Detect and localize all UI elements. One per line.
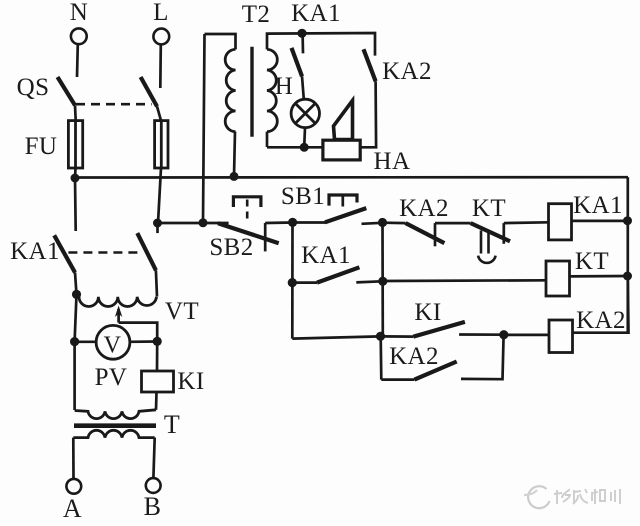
VT tap arrow (115, 306, 157, 342)
wire T2 secondary top (266, 132, 269, 147)
wire bus to KA1 left (74, 178, 77, 231)
wire KA2 coil right (573, 276, 629, 333)
terminal A (66, 479, 81, 494)
terminal B (146, 478, 161, 493)
contact KT delay symbol (478, 231, 496, 263)
wire self latch left vertical (291, 223, 294, 339)
contact KA1 self latch blade (317, 267, 359, 282)
switch QS right blade (141, 77, 157, 106)
wire KA2 branch down (360, 81, 376, 147)
svg-text:KT: KT (472, 195, 506, 222)
contact KA1 lamp blade (292, 48, 303, 76)
sounder HA body (323, 140, 360, 160)
contact KA2 row4 blade (415, 362, 457, 380)
node lamp bottom (300, 143, 309, 152)
svg-text:HA: HA (374, 148, 411, 175)
coil KA2 (549, 320, 573, 353)
wire L to QS (159, 44, 162, 88)
contact KA2 top blade (364, 49, 376, 81)
svg-text:VT: VT (165, 298, 199, 325)
wire T to terminal A (72, 438, 75, 479)
KA1 dashed link (68, 251, 138, 254)
button SB2 stem dashed (246, 200, 249, 223)
svg-text:FU: FU (25, 133, 58, 160)
svg-text:V: V (104, 332, 122, 358)
watermark logo (524, 486, 550, 508)
wire stub below node (301, 33, 304, 53)
transformer T secondary (73, 430, 154, 437)
svg-text:QS: QS (17, 74, 50, 101)
contact KT nc blade (471, 223, 510, 241)
wire self latch row right (356, 281, 383, 282)
node rail left (153, 219, 162, 228)
button SB2 blade (218, 223, 279, 243)
button SB1 blade (325, 208, 366, 222)
wire VT left down (75, 294, 77, 341)
wire KA2 row4 right (461, 335, 504, 379)
bus N horizontal (75, 176, 628, 179)
svg-text:SB2: SB2 (209, 234, 253, 261)
wire rail to KA2 contact (383, 221, 406, 224)
fuse FU right (155, 121, 168, 168)
svg-text:B: B (144, 492, 162, 521)
wire T to terminal B (153, 438, 154, 478)
transformer T2 core (250, 47, 253, 137)
wire N to QS (76, 44, 80, 77)
QS dashed link (76, 103, 152, 106)
svg-text:KI: KI (177, 368, 204, 395)
transformer T primary (75, 410, 156, 419)
node lamp branch top (297, 29, 306, 38)
lamp H (291, 99, 319, 127)
wire T2 left lead (203, 34, 205, 223)
wire KA2 branch vertical (381, 223, 384, 337)
svg-text:N: N (70, 0, 88, 26)
wire rail to SB1 (293, 221, 326, 224)
svg-text:A: A (63, 494, 82, 523)
wire KI row right (459, 333, 504, 336)
wire KT to KA1 coil (504, 221, 549, 225)
wire VT left to T primary (73, 342, 76, 410)
terminal N (71, 28, 87, 44)
wire KI row left corner (292, 336, 380, 338)
svg-text:T: T (164, 410, 180, 439)
wire FU left to bus (74, 168, 77, 178)
terminal L (153, 29, 169, 45)
coil KA1 (549, 204, 572, 240)
button SB1 stem (341, 195, 344, 207)
wire T2 secondary to lamp loop top (267, 33, 375, 56)
svg-text:KI: KI (414, 299, 441, 326)
wire QS left to FU (74, 105, 77, 120)
node coil KA1 right (623, 216, 632, 225)
node bus left (71, 174, 80, 183)
wire T2 top left (205, 34, 236, 49)
svg-text:L: L (153, 0, 169, 26)
svg-text:KT: KT (575, 248, 609, 275)
sounder HA horn cone (334, 101, 353, 140)
svg-text:KA1: KA1 (291, 0, 341, 27)
node KI row right (499, 330, 508, 339)
wire row2 to KT coil (383, 279, 546, 282)
node row2 junction (378, 277, 387, 286)
svg-text:KA2: KA2 (382, 58, 432, 85)
switch QS left blade (58, 77, 76, 105)
svg-text:KA1: KA1 (301, 242, 351, 269)
wire KT coil right (570, 275, 628, 278)
node T2 lead on rail (199, 218, 208, 227)
svg-text:KA2: KA2 (399, 195, 449, 222)
transformer T2 primary winding (225, 49, 235, 131)
watermark text (554, 489, 620, 504)
coil KI box (142, 371, 174, 392)
contact KT nc post (502, 223, 505, 244)
meter PV (96, 325, 130, 359)
wire right bus vertical (626, 177, 629, 333)
button SB1 cap (329, 195, 357, 206)
wire PV node to KI coil (156, 342, 159, 372)
wire KI coil to T (155, 392, 158, 410)
wire KI row to blade (381, 335, 414, 338)
wire blade to lamp (302, 76, 304, 99)
coil KT (546, 261, 570, 296)
contact KI blade (413, 322, 465, 337)
rail control horizontal (158, 222, 229, 225)
contact KA1 right blade (137, 233, 156, 270)
svg-text:KA2: KA2 (576, 307, 626, 334)
wire KA1 coil to right bus (572, 220, 628, 223)
svg-text:KA1: KA1 (10, 238, 60, 265)
wire KI node to KA2 coil (504, 334, 549, 337)
wire KA2 row4 left vertical (379, 336, 382, 379)
node VT left (72, 290, 81, 299)
svg-text:T2: T2 (242, 1, 271, 28)
node T2 on bus (230, 172, 239, 181)
contact KA2 nc post (434, 223, 437, 246)
node PV row right (153, 337, 162, 346)
node self latch left top (288, 218, 297, 227)
transformer T core (74, 423, 156, 428)
node rail KA2 branch (378, 218, 387, 227)
node self latch row left (288, 278, 297, 287)
wire KA2 to KT contact (435, 222, 471, 225)
contact KA1 left blade (54, 235, 75, 272)
svg-text:H: H (275, 73, 293, 100)
wire QS right to FU (157, 106, 161, 120)
wire KA1 right to VT (156, 270, 157, 296)
wire KA2 row4 left (381, 378, 414, 381)
svg-text:SB1: SB1 (281, 183, 325, 210)
wire lamp to bottom (303, 128, 306, 148)
wire rail to KA1 right (156, 223, 159, 233)
wire lamp loop bottom (267, 146, 323, 149)
fuse FU left (68, 121, 82, 168)
node KT coil right (623, 272, 632, 281)
wire PV row right (130, 340, 157, 343)
wire FU right to rail (crosses bus) (158, 168, 161, 223)
wire self latch row left (292, 281, 317, 284)
transformer VT winding (77, 294, 157, 306)
contact KA2 nc blade (406, 223, 445, 243)
button SB2 cap (233, 197, 261, 207)
svg-text:PV: PV (95, 364, 128, 391)
wire PV row left (75, 340, 96, 343)
svg-text:KA2: KA2 (389, 343, 439, 370)
wire KA1 left to VT (75, 273, 77, 295)
svg-text:KA1: KA1 (573, 192, 623, 219)
wire SB2 to SB1 (265, 221, 292, 224)
wire T2 primary bottom to bus (234, 132, 235, 177)
node KI row left (376, 332, 385, 341)
wire SB1 right nub (362, 223, 383, 224)
node PV row left (70, 337, 79, 346)
transformer T2 secondary winding (267, 49, 277, 131)
button SB2 post (264, 223, 267, 251)
